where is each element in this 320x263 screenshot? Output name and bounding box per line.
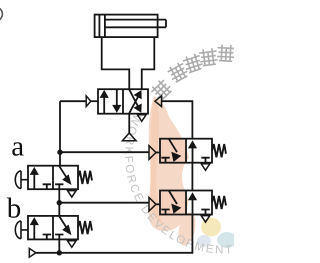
valve V4 left box blocked port T (161, 210, 169, 215)
valve a right box blocked port T (55, 184, 63, 189)
cylinder piston (99, 15, 105, 37)
wire cylinder left port to valve A (102, 37, 130, 90)
valve V1 left box down arrow (116, 90, 118, 107)
valve V3 left box blocked port T (161, 158, 169, 163)
valve a exhaust triangle (68, 191, 77, 198)
valve V3 left box exhaust diagonal arrow (169, 139, 177, 152)
valve V3 pilot triangle (149, 146, 156, 160)
valve V3 return spring (212, 144, 226, 157)
valve V1 right pilot (155, 96, 162, 107)
junction node 3 (bus) (57, 250, 62, 255)
valve V4 right box flow arrow (192, 199, 194, 215)
wire V1 left pilot down to valve a output (59, 101, 61, 166)
bus pressure source triangle (29, 248, 36, 257)
watermark logo (background) (148, 96, 189, 231)
valve b right box exhaust diagonal arrow (59, 216, 67, 229)
valve V1 left pilot (60, 100, 86, 102)
valve V3 exhaust triangle (201, 164, 210, 171)
valve V4 exhaust triangle (201, 216, 210, 223)
valve V1 left box up arrow (103, 96, 105, 113)
valve a right box exhaust diagonal arrow (59, 166, 67, 179)
svg-text:a: a (11, 130, 24, 162)
wire valve a supply to node 2 to valve b output (58, 189, 60, 216)
valve b right box blocked port T (55, 235, 63, 240)
junction node 1 (57, 150, 62, 155)
V1 exhaust triangle (137, 115, 146, 122)
V1 pressure source triangle (122, 133, 136, 141)
valve a return spring (78, 171, 92, 184)
wire V1 right pilot to V3 output (162, 101, 193, 139)
valve V1 right box crossed arrow A-R (129, 90, 139, 110)
valve V3 right box flow arrow (192, 147, 194, 163)
valve V4 pilot triangle (149, 198, 156, 212)
wire V4 supply from bottom bus (36, 215, 193, 253)
valve V3 body (160, 139, 212, 163)
valve b body (28, 216, 78, 240)
valve V4 right box blocked port T (201, 210, 209, 215)
valve V4 body (160, 191, 212, 215)
cylinder body (95, 15, 158, 37)
valve V1 right box crossed arrow P-B (129, 94, 139, 113)
valve a body (28, 166, 78, 190)
wire node2 to V4 pilot (59, 202, 149, 204)
partial circle marker (top-left, cut off) (0, 7, 2, 21)
wire node1 to V3 pilot (60, 151, 149, 153)
valve V4 left box exhaust diagonal arrow (169, 191, 177, 204)
valve V4 return spring (212, 196, 226, 209)
valve b pushbutton actuator (15, 221, 28, 239)
valve a left box blocked port T (43, 184, 51, 189)
valve b exhaust triangle (68, 241, 77, 248)
wire V3 supply from V4 output (191, 163, 193, 191)
wire cylinder right port to valve B (142, 37, 155, 89)
junction node 2 (57, 200, 62, 205)
valve b left box blocked port T (43, 235, 51, 240)
svg-text:b: b (7, 193, 21, 225)
valve V3 right box blocked port T (201, 158, 209, 163)
cylinder piston rod (105, 20, 166, 28)
wire valve b supply to bus (58, 239, 60, 252)
valve a left box flow arrow (33, 173, 35, 189)
valve b return spring (78, 221, 92, 234)
valve a pushbutton actuator (15, 171, 28, 189)
valve b left box flow arrow (33, 223, 35, 239)
V1 supply line (128, 114, 130, 134)
valve V1 body (98, 89, 148, 114)
